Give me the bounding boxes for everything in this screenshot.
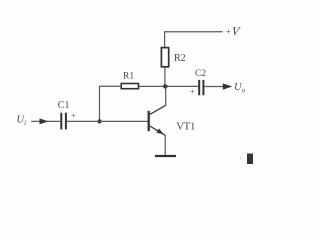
svg-text:+: + (71, 111, 76, 120)
bottom-right page artifact dark bar (247, 154, 253, 165)
svg-text:+: + (239, 154, 244, 163)
resistor R1 (121, 84, 138, 89)
wire C2 to output arrow (205, 86, 232, 88)
wire collector vertical (165, 87, 167, 106)
svg-text:R2: R2 (174, 53, 186, 64)
wire collector horizontal R1 to C2 (139, 85, 199, 87)
wire R1 left to corner and down (100, 86, 122, 121)
ground (155, 155, 176, 157)
wire input arrow line (31, 120, 60, 122)
svg-text:C2: C2 (195, 69, 206, 79)
emitter arrowhead (156, 129, 163, 135)
wire emitter vertical to ground (164, 135, 166, 155)
transistor VT1 emitter stroke (150, 126, 165, 135)
transistor VT1 base bar (148, 111, 150, 131)
svg-text:VT1: VT1 (176, 121, 195, 133)
resistor R2 (161, 48, 168, 67)
transistor VT1 collector stroke (150, 105, 166, 114)
svg-text:+: + (226, 27, 231, 37)
capacitor C2 left plate (198, 80, 200, 95)
wire R2 bottom to collector node (164, 67, 166, 87)
capacitor C1 left plate (60, 113, 62, 130)
wire C1 to base junction to transistor base (67, 120, 148, 122)
output arrowhead (223, 83, 232, 89)
svg-text:R1: R1 (123, 71, 134, 81)
wire top +V rail (165, 32, 223, 47)
node base junction (97, 119, 101, 123)
capacitor C1 right plate (65, 113, 67, 130)
svg-text:C1: C1 (58, 100, 70, 111)
node collector junction (163, 84, 167, 88)
input arrowhead (40, 118, 49, 124)
capacitor C2 right plate (202, 80, 204, 95)
svg-text:+: + (190, 87, 195, 96)
